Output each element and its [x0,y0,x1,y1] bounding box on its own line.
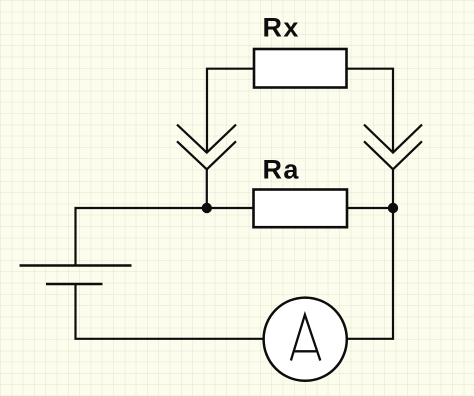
battery V1 negative plate [46,283,103,285]
wire top-left (Rx left lead to left vertical drop) [207,69,254,153]
ammeter A1 letter A [291,315,320,361]
resistor Rx [254,49,347,88]
wire right arrow tail down through node B to bottom-right corner then to ammeter [347,169,393,338]
wire Ra right lead to node B [347,207,393,209]
node A junction dot [202,203,212,213]
wire battery bottom to bottom rail [76,284,264,339]
resistor Ra [254,190,348,228]
svg-text:Ra: Ra [263,155,300,185]
arrow left lower chevron [177,141,236,169]
node B junction dot [388,203,398,213]
arrow right upper chevron [364,125,422,153]
wire top-right (Rx right lead to right vertical drop) [347,69,394,152]
svg-text:Rx: Rx [263,13,300,43]
battery V1 positive plate [20,264,132,266]
arrow right lower chevron [364,141,422,169]
wire left arrow tail to node A [206,169,208,208]
arrow left upper chevron [177,125,236,153]
wire middle (battery top to Ra left lead) [76,208,254,266]
ammeter A1 body [264,298,347,381]
